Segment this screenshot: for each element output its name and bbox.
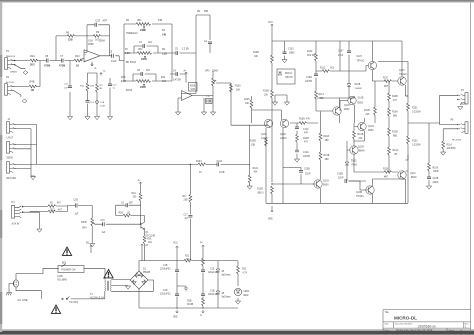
svg-text:R4B: R4B <box>30 81 35 84</box>
svg-text:4.7K: 4.7K <box>243 273 248 275</box>
svg-text:R10D: R10D <box>392 132 398 134</box>
svg-text:6B0: 6B0 <box>320 98 325 100</box>
svg-text:C110: C110 <box>303 129 309 131</box>
svg-text:R116: R116 <box>383 169 389 171</box>
svg-text:R10B: R10B <box>303 138 309 140</box>
svg-text:R10A: R10A <box>392 111 398 114</box>
svg-text:NC0B: NC0B <box>187 304 194 306</box>
svg-text:D600: D600 <box>368 130 374 132</box>
svg-text:9aChase: 9aChase <box>222 275 232 277</box>
svg-text:DRAIN: DRAIN <box>10 71 17 74</box>
svg-text:10K: 10K <box>264 95 269 97</box>
svg-text:4558: 4558 <box>190 86 196 88</box>
svg-text:Q101: Q101 <box>261 134 267 136</box>
svg-text:R7B: R7B <box>121 77 126 79</box>
svg-text:100R: 100R <box>433 171 439 173</box>
svg-text:YEL-BRN: YEL-BRN <box>57 280 67 282</box>
svg-text:#B7: #B7 <box>384 177 389 179</box>
svg-text:ZD101: ZD101 <box>285 73 293 75</box>
svg-text:R12: R12 <box>161 77 166 79</box>
svg-text:B649: B649 <box>359 151 365 153</box>
svg-text:C20: C20 <box>96 20 101 23</box>
svg-text:100uF1B: 100uF1B <box>208 294 218 296</box>
svg-text:R2A: R2A <box>30 55 35 58</box>
svg-text:Q10B: Q10B <box>356 192 362 194</box>
svg-text:TIP41C: TIP41C <box>357 61 365 63</box>
svg-text:C10A: C10A <box>303 151 309 154</box>
svg-text:B0?: B0? <box>62 263 67 265</box>
svg-text:3R: 3R <box>99 88 102 90</box>
svg-text:220P: 220P <box>338 178 344 180</box>
svg-text:LED1: LED1 <box>244 291 250 293</box>
svg-text:1B: 1B <box>127 212 130 214</box>
svg-text:C107: C107 <box>338 51 344 53</box>
svg-text:HP-4OhM: HP-4OhM <box>452 139 462 141</box>
svg-text:R14B: R14B <box>358 134 364 136</box>
svg-text:100uF1B: 100uF1B <box>208 272 218 274</box>
svg-text:VR2: VR2 <box>138 49 143 51</box>
svg-text:D102: D102 <box>351 161 357 163</box>
svg-text:R117: R117 <box>383 78 389 80</box>
svg-text:220P: 220P <box>305 174 311 176</box>
svg-text:4K7: 4K7 <box>58 209 63 211</box>
svg-text:2,2K: 2,2K <box>121 81 126 83</box>
svg-text:R2B: R2B <box>187 301 192 303</box>
svg-text:1uF: 1uF <box>75 214 80 216</box>
svg-text:R10B: R10B <box>392 96 398 98</box>
svg-text:9aChase: 9aChase <box>222 297 232 299</box>
svg-text:Date:: Date: <box>385 329 390 332</box>
svg-text:D10B: D10B <box>355 84 361 86</box>
svg-text:224M: 224M <box>433 182 439 184</box>
svg-text:POWER ON: POWER ON <box>62 269 76 272</box>
svg-text:TW (NO): TW (NO) <box>69 302 78 304</box>
svg-text:6B0: 6B0 <box>393 136 398 138</box>
svg-text:20KD: 20KD <box>140 30 146 32</box>
svg-text:Q103: Q103 <box>323 181 329 183</box>
svg-text:C1B: C1B <box>74 200 79 202</box>
svg-text:1,2M: 1,2M <box>100 106 105 108</box>
svg-text:R113: R113 <box>319 94 325 96</box>
svg-text:VCC: VCC <box>268 22 273 24</box>
svg-text:10K: 10K <box>254 56 259 58</box>
svg-text:A-: A- <box>95 67 98 70</box>
svg-text:20KD: 20KD <box>141 59 147 61</box>
svg-text:#R7: #R7 <box>384 86 389 88</box>
svg-text:R100: R100 <box>235 86 241 88</box>
svg-text:C11B: C11B <box>57 276 63 278</box>
svg-text:R10B: R10B <box>299 119 305 121</box>
svg-text:C10B: C10B <box>337 174 343 176</box>
svg-text:100/50: 100/50 <box>305 81 313 83</box>
svg-text:C10B: C10B <box>306 77 312 79</box>
svg-text:BASS: BASS <box>126 89 133 92</box>
svg-text:C103: C103 <box>288 49 294 51</box>
svg-text:PASSIVE: PASSIVE <box>6 55 16 58</box>
svg-text:VEE: VEE <box>268 219 273 221</box>
svg-text:D600: D600 <box>344 109 350 111</box>
svg-text:VEE: VEE <box>173 317 178 319</box>
svg-text:20KB: 20KB <box>81 222 87 224</box>
svg-text:C1B: C1B <box>163 265 168 267</box>
svg-text:R104: R104 <box>253 168 259 170</box>
svg-text:ACOM-LE 2A: ACOM-LE 2A <box>90 297 104 300</box>
svg-text:14B: 14B <box>162 34 167 37</box>
svg-text:1M: 1M <box>31 89 34 92</box>
svg-text:47P: 47P <box>304 133 309 135</box>
svg-text:C15: C15 <box>210 269 215 271</box>
svg-text:L/OUT: L/OUT <box>7 137 14 139</box>
svg-text:0.22/5W: 0.22/5W <box>412 145 421 147</box>
svg-text:10uF: 10uF <box>111 60 117 63</box>
svg-text:3K3: 3K3 <box>162 81 167 83</box>
svg-text:100/50: 100/50 <box>303 156 311 158</box>
svg-text:22B: 22B <box>68 38 73 41</box>
svg-text:10P: 10P <box>129 202 134 204</box>
svg-text:YM41: YM41 <box>351 165 358 167</box>
svg-text:R111: R111 <box>320 68 326 70</box>
svg-text:R01: R01 <box>147 238 152 240</box>
svg-text:1K0: 1K0 <box>95 38 100 41</box>
svg-text:10K: 10K <box>236 90 241 92</box>
svg-text:R21: R21 <box>185 256 190 258</box>
svg-text:2K2: 2K2 <box>30 63 35 66</box>
svg-text:R103: R103 <box>196 161 202 163</box>
svg-text:TIP42C: TIP42C <box>356 196 364 198</box>
svg-text:RED: RED <box>244 295 249 297</box>
svg-text:VR1: VR1 <box>137 20 142 22</box>
svg-text:R10B: R10B <box>263 91 269 93</box>
svg-text:R105: R105 <box>244 99 250 101</box>
svg-text:C1D: C1D <box>163 290 168 292</box>
svg-text:Q110: Q110 <box>410 173 416 175</box>
svg-text:U107: U107 <box>357 56 363 58</box>
svg-text:C15: C15 <box>101 220 106 222</box>
svg-text:ATP: ATP <box>103 20 108 23</box>
svg-text:Document Number: Document Number <box>395 323 413 326</box>
svg-text:B649: B649 <box>411 177 417 179</box>
svg-text:-7B: -7B <box>394 154 398 156</box>
svg-text:+B: +B <box>145 245 148 247</box>
svg-text:R114: R114 <box>447 144 453 146</box>
svg-text:1,5B: 1,5B <box>162 54 167 56</box>
svg-text:ACTIVE: ACTIVE <box>6 81 14 84</box>
svg-text:R10B: R10B <box>257 189 263 191</box>
svg-text:Title: Title <box>385 311 390 314</box>
svg-text:-: - <box>85 59 86 62</box>
svg-text:A-: A- <box>200 314 203 317</box>
svg-text:VR5: VR5 <box>205 71 210 73</box>
svg-text:C17: C17 <box>184 215 189 217</box>
svg-text:40K: 40K <box>254 172 259 174</box>
svg-text:23B: 23B <box>184 200 189 202</box>
svg-text:2,2 5B: 2,2 5B <box>182 49 189 51</box>
svg-text:0,473M: 0,473M <box>173 80 181 82</box>
svg-text:TIP41C: TIP41C <box>399 74 407 76</box>
svg-text:PB40B: PB40B <box>143 272 151 274</box>
svg-text:2200uF63: 2200uF63 <box>160 294 171 296</box>
svg-text:6B0 5: 6B0 5 <box>258 193 265 195</box>
svg-text:22B: 22B <box>90 86 94 88</box>
svg-text:1,5K: 1,5K <box>125 53 130 55</box>
svg-text:AUX IN: AUX IN <box>12 223 20 226</box>
svg-text:C10B: C10B <box>433 178 439 180</box>
svg-text:U1B: U1B <box>191 89 196 91</box>
svg-text:BD 500-B: BD 500-B <box>126 62 136 64</box>
svg-text:1B0: 1B0 <box>325 140 330 142</box>
svg-text:R22: R22 <box>242 269 247 271</box>
svg-text:R10: R10 <box>75 55 80 58</box>
svg-text:TREBLE10: TREBLE10 <box>126 33 138 35</box>
svg-text:R10B: R10B <box>253 52 259 54</box>
svg-text:1K: 1K <box>76 65 79 68</box>
svg-text:3K2 5W: 3K2 5W <box>307 55 316 57</box>
svg-text:Wednesday, December 08, 2010: Wednesday, December 08, 2010 <box>396 329 433 332</box>
svg-text:R109: R109 <box>433 168 439 170</box>
svg-text:78K7W: 78K7W <box>285 77 293 79</box>
svg-text:03B0: 03B0 <box>289 53 295 55</box>
svg-text:Q102: Q102 <box>280 134 286 136</box>
svg-text:1K: 1K <box>199 172 202 174</box>
svg-text:1uF: 1uF <box>102 232 107 234</box>
svg-text:R10A: R10A <box>393 149 399 152</box>
svg-text:R10B: R10B <box>250 141 256 143</box>
svg-text:AC LINE: AC LINE <box>18 298 28 302</box>
svg-text:15B: 15B <box>251 145 256 147</box>
svg-text:473M: 473M <box>59 65 65 68</box>
svg-text:1uF: 1uF <box>64 88 68 90</box>
svg-text:56B: 56B <box>204 11 209 13</box>
svg-text:Q104: Q104 <box>344 105 350 107</box>
svg-text:R11B: R11B <box>364 110 370 112</box>
svg-text:R12: R12 <box>51 209 56 211</box>
svg-text:R17: R17 <box>183 196 188 198</box>
svg-text:20HB: 20HB <box>212 71 218 73</box>
svg-text:3K2: 3K2 <box>330 68 335 70</box>
svg-text:C1B: C1B <box>210 291 215 293</box>
svg-text:R101: R101 <box>412 108 418 110</box>
svg-text:A1015: A1015 <box>261 137 268 140</box>
svg-text:C10B: C10B <box>304 169 310 171</box>
svg-text:4K7: 4K7 <box>57 203 62 205</box>
svg-text:SEND: SEND <box>7 157 14 159</box>
svg-text:47uF: 47uF <box>338 55 344 57</box>
svg-text:A1015: A1015 <box>280 137 287 140</box>
svg-text:C1A: C1A <box>100 101 105 104</box>
svg-text:2200uF63: 2200uF63 <box>160 269 171 271</box>
svg-text:G10B: G10B <box>358 98 364 100</box>
svg-text:Sheet: Sheet <box>449 329 455 332</box>
svg-text:C102: C102 <box>217 161 223 163</box>
svg-text:4Oh50W: 4Oh50W <box>447 148 457 150</box>
svg-text:VCC: VCC <box>173 243 178 245</box>
svg-text:473M: 473M <box>44 65 50 68</box>
svg-text:Q109: Q109 <box>358 147 364 149</box>
svg-text:6B0: 6B0 <box>393 116 398 118</box>
svg-text:54B: 54B <box>158 20 163 22</box>
svg-text:R13B: R13B <box>324 155 330 157</box>
svg-text:R102: R102 <box>412 141 418 143</box>
svg-text:Q107: Q107 <box>399 70 405 72</box>
svg-text:DTC114E: DTC114E <box>145 236 155 238</box>
svg-text:1B0: 1B0 <box>325 159 330 161</box>
svg-text:101B: 101B <box>219 172 225 174</box>
svg-text:0.22/5W: 0.22/5W <box>412 112 421 114</box>
svg-text:47K: 47K <box>306 119 311 121</box>
svg-text:D600: D600 <box>358 103 364 105</box>
svg-text:10K: 10K <box>245 103 250 105</box>
svg-text:R19: R19 <box>132 193 137 195</box>
svg-text:2037630-xx: 2037630-xx <box>418 325 436 329</box>
svg-text:10A: 10A <box>148 241 153 244</box>
svg-text:4558: 4558 <box>88 43 94 46</box>
svg-text:R1B: R1B <box>119 212 124 214</box>
svg-text:MICRO-DL: MICRO-DL <box>394 316 417 321</box>
svg-text:20KD: 20KD <box>140 87 146 89</box>
svg-text:RETURN: RETURN <box>7 178 17 180</box>
svg-text:D600: D600 <box>323 185 329 187</box>
svg-text:VR4: VR4 <box>82 228 87 230</box>
svg-text:Q10A: Q10A <box>368 125 374 128</box>
svg-text:R11B: R11B <box>324 136 330 138</box>
svg-text:R112: R112 <box>307 51 313 53</box>
svg-text:YM4B07: YM4B07 <box>355 88 364 90</box>
svg-text:OUT: OUT <box>461 104 466 106</box>
